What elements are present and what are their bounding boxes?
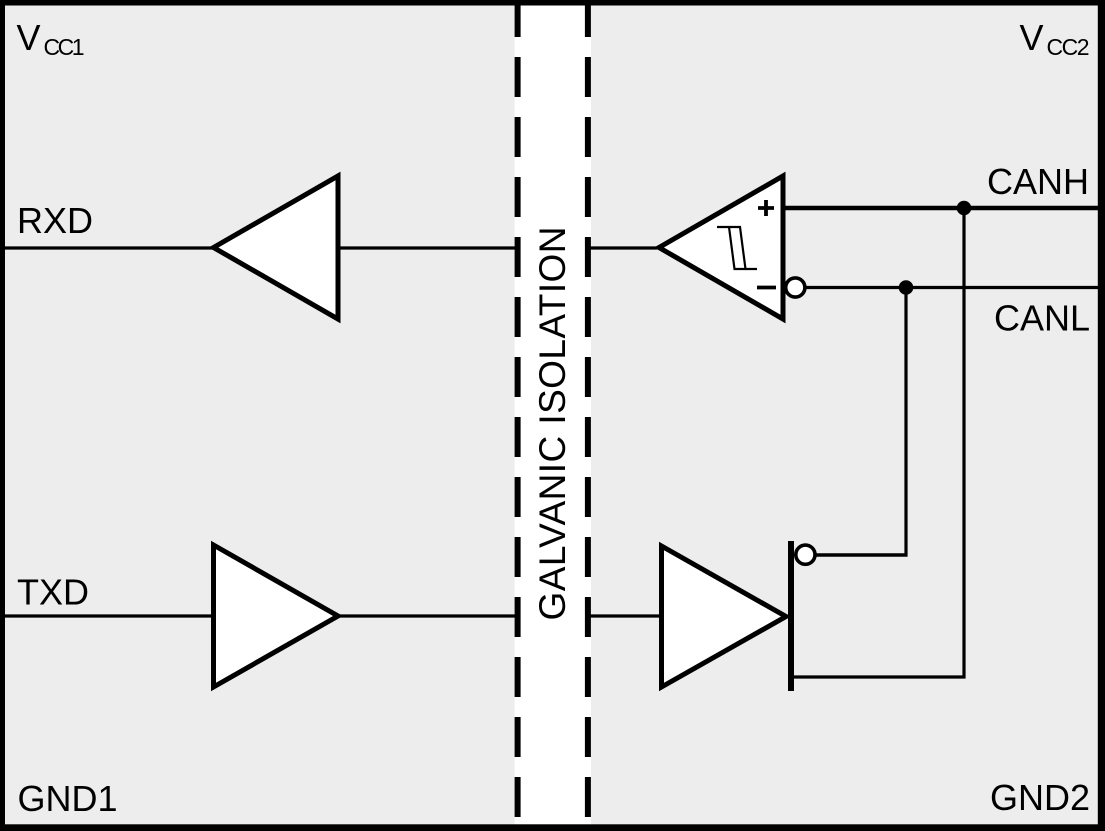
minus input marker (757, 286, 776, 290)
wire vertical from CANL junction down to driver enable bubble (904, 288, 907, 557)
buffer TX (points right) (214, 545, 339, 687)
svg-text:GND2: GND2 (990, 777, 1090, 818)
inverting bubble on comparator minus input (786, 278, 805, 297)
outer border frame (0, 0, 1105, 6)
svg-text:TXD: TXD (17, 572, 89, 613)
wire CANH (+ input to right border) (782, 206, 1105, 210)
dashed isolation line right (585, 0, 591, 831)
junction node on CANH (957, 201, 972, 216)
comparator U1 receiver triangle (points left) (659, 176, 783, 319)
hysteresis symbol inside comparator (717, 227, 757, 269)
svg-text:V: V (17, 17, 41, 58)
svg-text:V: V (1020, 17, 1044, 58)
wire from driver bubble to vertical (814, 553, 908, 556)
galvanic isolation white band (515, 0, 591, 831)
wire TXD left segment (4, 614, 213, 617)
svg-text:CANH: CANH (987, 161, 1089, 202)
buffer RX (points left) (214, 176, 339, 319)
plus input marker (758, 200, 774, 216)
svg-text:CANL: CANL (994, 298, 1090, 339)
wire from driver bar bottom to vertical (793, 675, 966, 678)
wire TXD right segment (isolation to driver) (586, 614, 664, 617)
junction node on CANL (899, 280, 914, 295)
svg-text:GALVANIC ISOLATION: GALVANIC ISOLATION (532, 227, 573, 621)
wire RXD left segment (4, 246, 213, 249)
driver output bar (788, 541, 794, 691)
wire vertical from CANH junction down to driver output (962, 208, 965, 679)
dashed isolation line left (515, 0, 521, 831)
wire CANL (- input bubble to right border) (805, 286, 1105, 289)
wire TXD middle segment (buffer to isolation) (337, 614, 519, 617)
driver U2 triangle (points right) (662, 546, 787, 687)
svg-text:CC2: CC2 (1047, 34, 1090, 60)
wire RXD right segment (isolation to comparator) (586, 246, 657, 249)
driver enable bubble (796, 545, 815, 564)
svg-text:GND1: GND1 (18, 778, 118, 819)
svg-text:CC1: CC1 (44, 34, 85, 60)
wire RXD middle segment (buffer to isolation) (337, 246, 519, 249)
svg-text:RXD: RXD (17, 200, 93, 241)
